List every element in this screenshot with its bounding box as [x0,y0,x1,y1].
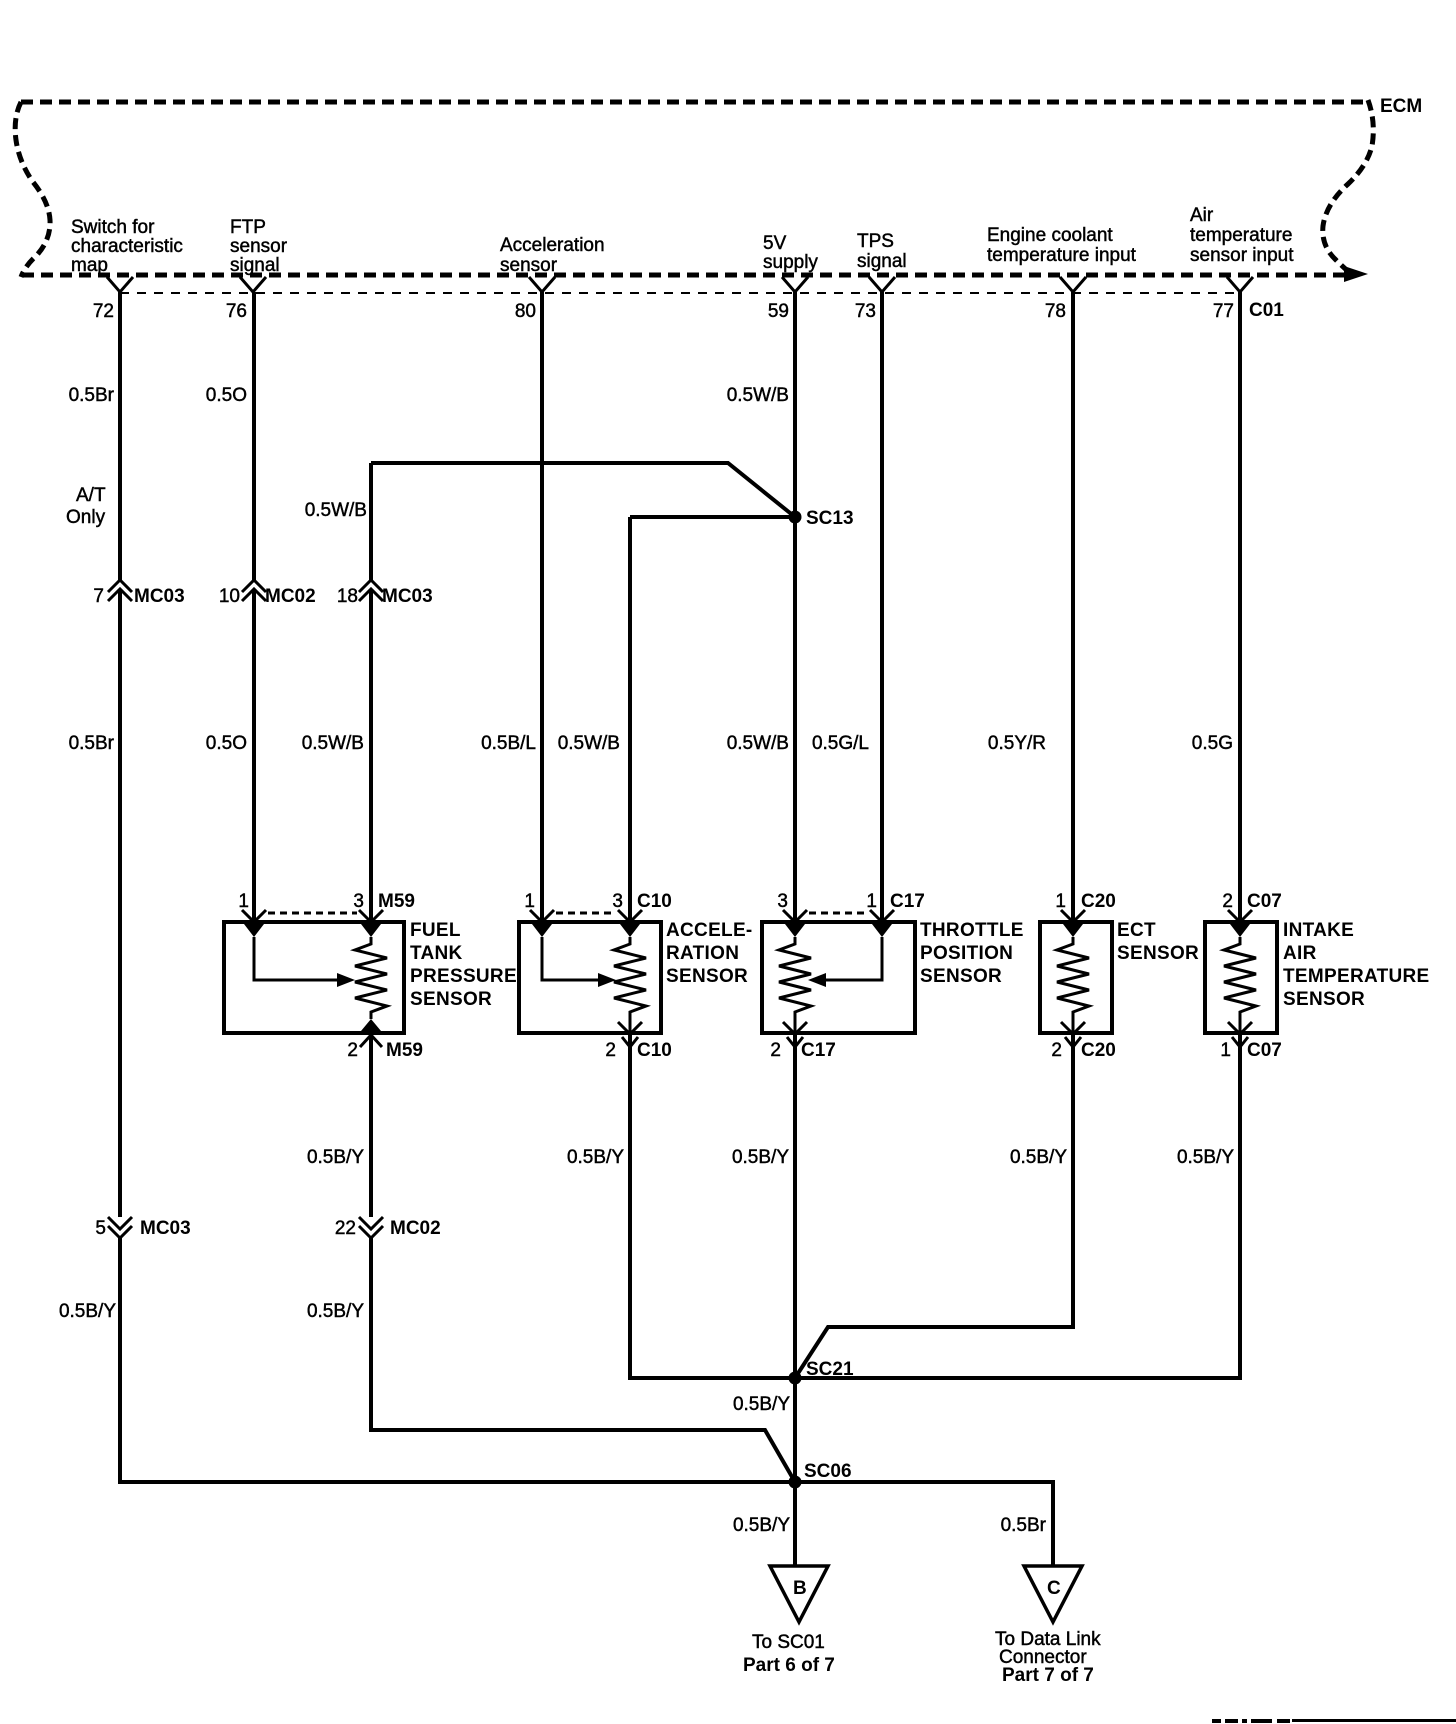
svg-text:0.5W/B: 0.5W/B [302,733,364,754]
svg-text:temperature input: temperature input [987,245,1137,266]
svg-text:TANK: TANK [410,943,463,964]
svg-text:18: 18 [337,586,358,607]
svg-text:C07: C07 [1247,891,1282,912]
svg-text:TEMPERATURE: TEMPERATURE [1283,966,1430,987]
svg-text:SENSOR: SENSOR [410,989,492,1010]
svg-text:10: 10 [219,586,240,607]
svg-text:3: 3 [612,891,623,912]
svg-text:0.5Br: 0.5Br [69,385,115,406]
svg-text:A/T: A/T [76,485,106,506]
svg-text:supply: supply [763,252,818,273]
svg-text:0.5B/Y: 0.5B/Y [733,1515,790,1536]
svg-text:0.5B/Y: 0.5B/Y [732,1147,789,1168]
svg-text:0.5B/Y: 0.5B/Y [733,1394,790,1415]
svg-text:0.5O: 0.5O [206,385,247,406]
svg-text:SENSOR: SENSOR [1283,989,1365,1010]
svg-text:22: 22 [335,1218,356,1239]
svg-text:C17: C17 [890,891,925,912]
svg-text:characteristic: characteristic [71,236,183,257]
svg-text:77: 77 [1213,301,1234,322]
svg-text:AIR: AIR [1283,943,1317,964]
svg-text:sensor: sensor [500,255,558,276]
svg-text:2: 2 [605,1040,616,1061]
svg-text:0.5B/Y: 0.5B/Y [1010,1147,1067,1168]
svg-text:POSITION: POSITION [920,943,1013,964]
svg-text:MC02: MC02 [390,1218,441,1239]
svg-text:Air: Air [1190,205,1214,226]
svg-text:M59: M59 [378,891,415,912]
svg-text:5V: 5V [763,233,787,254]
svg-text:3: 3 [353,891,364,912]
svg-text:FTP: FTP [230,217,266,238]
svg-text:Acceleration: Acceleration [500,235,605,256]
svg-text:ECM: ECM [1380,96,1422,117]
svg-text:C07: C07 [1247,1040,1282,1061]
svg-text:Switch for: Switch for [71,217,155,238]
svg-text:0.5Y/R: 0.5Y/R [988,733,1046,754]
svg-text:C: C [1047,1578,1061,1599]
svg-text:MC02: MC02 [265,586,316,607]
svg-text:temperature: temperature [1190,225,1292,246]
svg-text:0.5G: 0.5G [1192,733,1233,754]
svg-text:Engine coolant: Engine coolant [987,225,1113,246]
svg-text:3: 3 [777,891,788,912]
svg-text:59: 59 [768,301,789,322]
svg-text:map: map [71,255,108,276]
svg-text:0.5B/Y: 0.5B/Y [59,1301,116,1322]
svg-text:0.5B/Y: 0.5B/Y [567,1147,624,1168]
svg-text:PRESSURE: PRESSURE [410,966,517,987]
svg-text:1: 1 [1220,1040,1231,1061]
svg-text:1: 1 [524,891,535,912]
svg-text:TPS: TPS [857,231,894,252]
svg-text:C20: C20 [1081,891,1116,912]
svg-text:0.5O: 0.5O [206,733,247,754]
svg-text:SC21: SC21 [806,1359,854,1380]
svg-text:7: 7 [93,586,104,607]
svg-text:C20: C20 [1081,1040,1116,1061]
svg-text:0.5W/B: 0.5W/B [727,733,789,754]
svg-text:0.5B/L: 0.5B/L [481,733,536,754]
svg-text:C10: C10 [637,1040,672,1061]
svg-text:SC06: SC06 [804,1461,852,1482]
svg-text:Only: Only [66,507,106,528]
svg-text:0.5W/B: 0.5W/B [727,385,789,406]
svg-text:sensor: sensor [230,236,288,257]
svg-text:FUEL: FUEL [410,920,461,941]
svg-text:SC13: SC13 [806,508,854,529]
svg-text:0.5W/B: 0.5W/B [558,733,620,754]
svg-text:THROTTLE: THROTTLE [920,920,1024,941]
svg-text:C17: C17 [801,1040,836,1061]
svg-text:0.5Br: 0.5Br [69,733,115,754]
svg-text:MC03: MC03 [382,586,433,607]
svg-text:B: B [793,1578,807,1599]
svg-text:C01: C01 [1249,300,1284,321]
svg-text:0.5W/B: 0.5W/B [305,500,367,521]
svg-text:80: 80 [515,301,536,322]
svg-text:0.5B/Y: 0.5B/Y [307,1147,364,1168]
svg-text:ECT: ECT [1117,920,1156,941]
svg-text:2: 2 [770,1040,781,1061]
svg-text:5: 5 [95,1218,106,1239]
svg-text:SENSOR: SENSOR [1117,943,1199,964]
svg-text:SENSOR: SENSOR [920,966,1002,987]
svg-text:1: 1 [238,891,249,912]
svg-text:76: 76 [226,301,247,322]
svg-text:signal: signal [857,251,907,272]
svg-text:RATION: RATION [666,943,739,964]
svg-text:0.5B/Y: 0.5B/Y [307,1301,364,1322]
svg-text:78: 78 [1045,301,1066,322]
svg-text:2: 2 [347,1040,358,1061]
svg-text:sensor input: sensor input [1190,245,1294,266]
svg-text:0.5B/Y: 0.5B/Y [1177,1147,1234,1168]
svg-text:1: 1 [1055,891,1066,912]
svg-text:M59: M59 [386,1040,423,1061]
svg-text:2: 2 [1222,891,1233,912]
svg-text:Part 6 of 7: Part 6 of 7 [743,1655,835,1676]
svg-text:ACCELE-: ACCELE- [666,920,753,941]
svg-text:To SC01: To SC01 [752,1632,825,1653]
svg-text:1: 1 [866,891,877,912]
svg-text:MC03: MC03 [134,586,185,607]
svg-text:73: 73 [855,301,876,322]
svg-text:MC03: MC03 [140,1218,191,1239]
svg-text:SENSOR: SENSOR [666,966,748,987]
svg-text:INTAKE: INTAKE [1283,920,1354,941]
svg-text:0.5Br: 0.5Br [1001,1515,1047,1536]
svg-text:0.5G/L: 0.5G/L [812,733,869,754]
svg-text:72: 72 [93,301,114,322]
svg-text:signal: signal [230,255,280,276]
svg-text:Part 7 of 7: Part 7 of 7 [1002,1665,1094,1686]
svg-text:2: 2 [1051,1040,1062,1061]
svg-text:C10: C10 [637,891,672,912]
